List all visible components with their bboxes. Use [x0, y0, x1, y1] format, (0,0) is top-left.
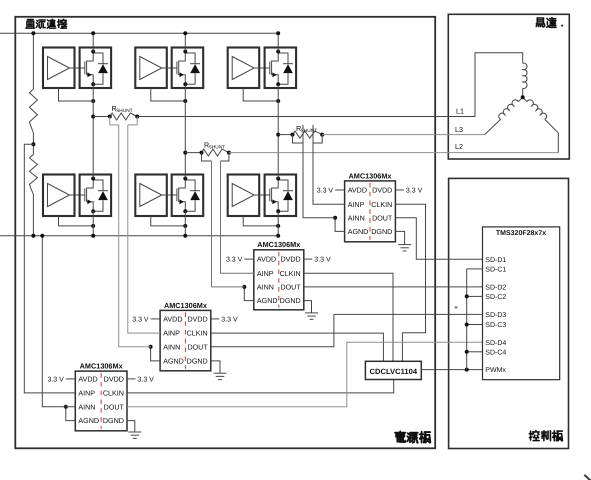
svg-text:CLKIN: CLKIN — [280, 270, 301, 278]
svg-text:DOUT: DOUT — [372, 214, 393, 222]
wire: U3 AGND to AINN — [244, 287, 254, 301]
svg-text:DVDD: DVDD — [372, 187, 392, 195]
junction: SD-C4 — [465, 350, 469, 354]
control board box — [449, 178, 569, 448]
wire: phase leg 2 midpoint — [184, 84, 186, 178]
svg-text:SD-D4: SD-D4 — [485, 340, 506, 347]
svg-text:SHUNT: SHUNT — [209, 145, 226, 151]
mark: corner artifact — [584, 475, 590, 480]
wire: leg 2 to shunt — [185, 152, 201, 154]
gate driver U2 buffer triangle — [140, 57, 162, 80]
ground (U2 DGND) — [398, 245, 411, 251]
IGBT Q5 symbol — [179, 179, 186, 189]
gate driver U5 buffer triangle — [140, 184, 162, 207]
svg-text:DOUT: DOUT — [280, 284, 301, 292]
isolated modulator U5 (AMC1306Mx) — [75, 362, 127, 431]
svg-text:CLKIN: CLKIN — [187, 330, 208, 338]
resistor R1 (DC bus divider upper) — [29, 89, 37, 133]
gate driver U2 box — [135, 48, 167, 89]
wire: U2 DVDD supply stub — [395, 189, 404, 191]
wire: DC- bus rail — [0, 235, 278, 237]
diode D5 (freewheel) — [185, 180, 195, 191]
svg-text:AGND: AGND — [257, 297, 278, 305]
wire: U3 AVDD supply stub — [244, 258, 254, 260]
node: Q6 emitter — [276, 209, 280, 213]
svg-text:DGND: DGND — [371, 228, 392, 236]
node: Q2 collector — [183, 50, 187, 54]
wire: driver U2 output to IGBT gate — [162, 67, 177, 69]
svg-text:AVDD: AVDD — [348, 187, 367, 195]
wire: U3 CLKIN route — [304, 273, 393, 361]
node: Q3 emitter — [276, 82, 280, 86]
svg-text:3.3 V: 3.3 V — [317, 188, 334, 195]
wire: phase leg 3 midpoint — [277, 84, 279, 178]
wire: U4 DVDD supply stub — [211, 318, 220, 320]
wire: U4 AGND to AINN — [151, 347, 161, 361]
isolated modulator U4 (AMC1306Mx) — [160, 301, 211, 371]
svg-text:3.3 V: 3.3 V — [314, 257, 331, 264]
node: Q6 collector — [276, 177, 280, 181]
ground (U4 DGND) — [214, 373, 227, 379]
gate driver U4 buffer triangle — [48, 184, 70, 207]
wire: DC- bus to U5 AINN — [42, 236, 75, 407]
junction: driver U3 return on phase leg — [276, 99, 280, 103]
svg-text:AMC1306Mx: AMC1306Mx — [164, 301, 207, 310]
wire: SD-C3 stub — [467, 324, 483, 326]
IGBT Q3 box — [265, 48, 297, 89]
svg-text:CLKIN: CLKIN — [371, 201, 392, 209]
wire: driver U4 output to IGBT gate — [70, 194, 85, 196]
node: Q5 emitter — [183, 209, 187, 213]
wire: U5 DOUT to SD-D4 — [127, 342, 483, 407]
svg-text:SHUNT: SHUNT — [116, 108, 133, 114]
IGBT Q1 symbol — [87, 52, 94, 62]
wire: U3 DGND to ground — [304, 301, 312, 313]
wire: U2 AGND to AINN — [335, 218, 345, 232]
svg-text:3.3 V: 3.3 V — [47, 376, 64, 383]
wire: driver U5 output to IGBT gate — [162, 194, 177, 196]
wire: shunt1 right sense to U4 AINP — [128, 125, 160, 333]
ground (U3 DGND) — [305, 313, 318, 319]
svg-text:PWMx: PWMx — [485, 367, 506, 374]
junction: leg 2 shunt tap — [183, 151, 187, 155]
node: R_SHUNT1 right terminal — [135, 115, 139, 119]
wire: R_SHUNT2 left kelvin tap — [202, 153, 212, 161]
junction: divider on DC- bus — [31, 234, 35, 238]
power board box — [15, 17, 435, 449]
svg-text:3.3 V: 3.3 V — [138, 376, 155, 383]
wire: R_SHUNT3 right kelvin tap — [313, 135, 322, 143]
wire: U2 DOUT to SD-D1 — [395, 218, 482, 260]
wire: DC+ bus rail — [0, 32, 278, 34]
junction: driver U1 return on phase leg — [91, 99, 95, 103]
svg-text:AINN: AINN — [163, 343, 180, 351]
svg-text:AVDD: AVDD — [163, 316, 182, 324]
wire: L3 phase line (shunt3 to motor) — [322, 134, 484, 136]
IGBT Q6 box — [265, 175, 297, 217]
node: Q4 collector — [91, 177, 95, 181]
wire: SDFM clock bus vertical — [466, 269, 468, 370]
junction: U5 AINN node — [64, 405, 68, 409]
wire: phase leg 1 lower — [92, 211, 94, 236]
junction: SD-C2 — [465, 294, 469, 298]
mark: small plus artifact — [455, 306, 458, 309]
wire: divider tap to U5 AINP — [24, 144, 75, 393]
label: power board — [395, 432, 430, 443]
junction: driver U6 return on phase leg — [276, 224, 280, 228]
IGBT Q4 symbol — [87, 179, 94, 189]
junction: SD-C3 — [465, 323, 469, 327]
svg-text:DVDD: DVDD — [187, 316, 207, 324]
IGBT Q5 box — [172, 175, 204, 217]
wire: shunt1 left sense to U4 AINN — [119, 125, 151, 347]
resistor R2 (DC bus divider lower) — [29, 155, 37, 195]
wire: driver U3 output to IGBT gate — [254, 67, 270, 69]
svg-text:L2: L2 — [455, 142, 463, 151]
gate driver U6 box — [228, 175, 260, 217]
gate driver U3 box — [228, 48, 260, 89]
wire: shunt3 left sense to U2 AINN — [303, 125, 335, 218]
diode D3 (freewheel) — [278, 53, 288, 64]
wire: driver U5 return — [151, 216, 186, 226]
resistor R_SHUNT1 — [110, 113, 137, 120]
svg-text:AINN: AINN — [348, 214, 365, 222]
svg-text:L3: L3 — [455, 125, 463, 134]
svg-text:3.3 V: 3.3 V — [221, 316, 238, 323]
wire: driver U6 output to IGBT gate — [254, 194, 270, 196]
junction: leg 1 on DC- bus — [91, 234, 95, 238]
wire: driver U3 return — [243, 88, 278, 101]
junction: divider on DC+ bus — [31, 31, 35, 35]
svg-text:3.3 V: 3.3 V — [406, 188, 423, 195]
wire: R_SHUNT1 left kelvin tap — [110, 117, 119, 125]
svg-text:3.3 V: 3.3 V — [132, 316, 149, 323]
junction: leg 3 on DC+ bus — [276, 31, 280, 35]
node: R_SHUNT2 right terminal — [227, 151, 231, 155]
wire: phase leg 1 midpoint — [92, 84, 94, 178]
junction: U5 AINN branch on DC- bus — [40, 234, 44, 238]
junction: leg 2 on DC- bus — [183, 234, 187, 238]
junction: PWMx to U6 input — [465, 368, 469, 372]
diode D2 (freewheel) — [185, 53, 195, 64]
svg-text:SD-D3: SD-D3 — [485, 312, 506, 319]
wire: divider bottom — [32, 195, 34, 236]
junction: U2 AINN node — [333, 216, 337, 220]
node: Q4 emitter — [91, 209, 95, 213]
junction: U3 AINN node — [242, 285, 246, 289]
gate driver U4 box — [43, 175, 75, 217]
wire: driver U2 return — [151, 88, 186, 101]
junction: leg 3 on DC- bus — [276, 234, 280, 238]
svg-text:DVDD: DVDD — [104, 376, 124, 384]
svg-text:AMC1306Mx: AMC1306Mx — [257, 240, 300, 249]
wire: U5 DGND to ground — [127, 421, 135, 432]
wire: driver U4 return — [59, 216, 94, 226]
wire: U4 DOUT to SD-D3 — [211, 314, 483, 346]
wire: driver U1 return — [59, 88, 94, 101]
node: Q1 collector — [91, 50, 95, 54]
svg-text:AVDD: AVDD — [257, 256, 276, 264]
svg-text:SD-D2: SD-D2 — [485, 285, 506, 292]
gate driver U5 box — [135, 175, 167, 217]
isolated modulator U3 (AMC1306Mx) — [254, 240, 304, 310]
wire: U5 AVDD supply stub — [66, 378, 76, 380]
svg-text:AVDD: AVDD — [78, 376, 97, 384]
microcontroller U7 (TMS320F28x7x) — [483, 227, 560, 380]
svg-text:DOUT: DOUT — [104, 403, 125, 411]
wire: shunt2 right sense to U3 AINP — [221, 161, 254, 273]
wire: U5 DVDD supply stub — [127, 378, 136, 380]
wire: leg 1 to shunt — [93, 116, 110, 118]
svg-text:CLKIN: CLKIN — [103, 390, 124, 398]
wire: U4 CLKIN route — [211, 333, 384, 361]
junction: leg 1 shunt tap — [91, 115, 95, 119]
wire: R_SHUNT1 right kelvin tap — [128, 117, 137, 125]
node: R_SHUNT1 left terminal — [108, 115, 112, 119]
svg-text:SD-C2: SD-C2 — [485, 294, 506, 301]
junction: leg 3 shunt tap — [276, 133, 280, 137]
wire: U2 DGND to ground — [395, 231, 404, 244]
IGBT Q2 box — [172, 48, 204, 89]
svg-text:DGND: DGND — [280, 297, 301, 305]
node: Q3 collector — [276, 50, 280, 54]
node: Q1 emitter — [91, 82, 95, 86]
svg-text:3.3 V: 3.3 V — [226, 257, 243, 264]
wire: L2 phase line (shunt2 to motor) — [229, 152, 558, 154]
svg-text:DOUT: DOUT — [187, 343, 208, 351]
junction: driver U5 return on phase leg — [183, 224, 187, 228]
IGBT Q3 symbol — [272, 52, 279, 62]
wire: driver U6 return — [243, 216, 278, 226]
gate driver U1 buffer triangle — [48, 57, 70, 80]
wire: SD-C2 stub — [467, 295, 483, 297]
gate driver U6 buffer triangle — [232, 184, 254, 207]
wire: R_SHUNT3 left kelvin tap — [293, 135, 304, 143]
node: R_SHUNT2 left terminal — [200, 151, 204, 155]
svg-text:DGND: DGND — [103, 417, 124, 425]
wire: U4 DGND to ground — [211, 361, 220, 373]
svg-text:AINP: AINP — [348, 201, 365, 209]
svg-text:AINP: AINP — [257, 270, 274, 278]
label: control board — [529, 431, 562, 441]
wire: driver U1 output to IGBT gate — [70, 67, 85, 69]
diode D4 (freewheel) — [93, 180, 103, 191]
svg-text:AINP: AINP — [78, 390, 95, 398]
junction: driver U2 return on phase leg — [183, 99, 187, 103]
svg-text:TMS320F28x7x: TMS320F28x7x — [496, 230, 546, 237]
svg-text:SD-D1: SD-D1 — [485, 257, 506, 264]
label: motor — [536, 18, 556, 28]
wire: U3 DOUT to SD-D2 — [304, 286, 483, 288]
inductor: motor winding L3 (left diagonal coil) — [518, 97, 522, 101]
node: R_SHUNT3 right terminal — [320, 133, 324, 137]
svg-text:DVDD: DVDD — [280, 256, 300, 264]
inductor: motor winding L1 (vertical coil) — [522, 53, 524, 64]
svg-text:CDCLVC1104: CDCLVC1104 — [370, 367, 418, 376]
svg-text:AMC1306Mx: AMC1306Mx — [80, 362, 123, 371]
IGBT Q6 symbol — [272, 179, 279, 189]
wire: SD-C4 stub — [467, 351, 483, 353]
wire: phase leg 1 upper — [92, 33, 94, 51]
diode D6 (freewheel) — [278, 180, 288, 191]
wire: U6 clock input from PWMx — [421, 369, 482, 371]
gate driver U1 box — [43, 48, 75, 89]
node: motor star point — [521, 95, 525, 99]
svg-text:AINN: AINN — [78, 403, 95, 411]
ground (U5 DGND) — [128, 432, 141, 438]
svg-text:AMC1306Mx: AMC1306Mx — [349, 171, 392, 180]
svg-text:AGND: AGND — [348, 228, 369, 236]
IGBT Q2 symbol — [179, 52, 186, 62]
node: R_SHUNT3 left terminal — [291, 133, 295, 137]
junction: U4 AINN node — [149, 345, 153, 349]
svg-text:L1: L1 — [456, 107, 464, 116]
junction: leg 1 on DC+ bus — [91, 31, 95, 35]
svg-text:SD-C3: SD-C3 — [485, 322, 506, 329]
junction: leg 2 on DC+ bus — [183, 31, 187, 35]
node: divider tap — [31, 142, 35, 146]
wire: shunt3 right sense to U2 AINP — [313, 125, 345, 204]
svg-text:AGND: AGND — [163, 358, 184, 366]
svg-text:SD-C1: SD-C1 — [485, 267, 506, 274]
junction: driver U4 return on phase leg — [91, 224, 95, 228]
wire: L1 phase line (shunt1 to motor) — [137, 53, 523, 117]
svg-text:AINP: AINP — [163, 330, 180, 338]
wire: leg 3 to shunt — [278, 134, 292, 136]
wire: divider middle — [32, 133, 34, 155]
wire: phase leg 3 lower — [277, 211, 279, 236]
diode D1 (freewheel) — [93, 53, 103, 64]
resistor R_SHUNT2 — [202, 149, 229, 156]
wire: U2 CLKIN route — [395, 204, 425, 361]
motor box — [448, 14, 569, 159]
svg-text:SD-C4: SD-C4 — [485, 349, 506, 356]
IGBT Q4 box — [80, 175, 112, 217]
wire: U4 AVDD supply stub — [151, 318, 161, 320]
wire: U5 CLKIN route — [127, 380, 394, 393]
wire: U5 AGND to AINN — [66, 407, 76, 421]
node: Q2 emitter — [183, 82, 187, 86]
wire: phase leg 2 upper — [184, 33, 186, 51]
isolated modulator U2 (AMC1306Mx) — [345, 171, 396, 241]
wire: U2 AVDD supply stub — [335, 189, 345, 191]
wire: U3 DVDD supply stub — [304, 258, 313, 260]
wire: phase leg 3 upper — [277, 33, 279, 51]
gate driver U3 buffer triangle — [232, 57, 254, 80]
svg-text:AGND: AGND — [78, 417, 99, 425]
node: Q5 collector — [183, 177, 187, 181]
wire: phase leg 2 lower — [184, 211, 186, 236]
wire: shunt2 left sense to U3 AINN — [212, 161, 245, 287]
clock buffer U6 (CDCLVC1104) — [365, 361, 421, 379]
wire: SD-C1 stub — [467, 268, 483, 270]
label: DC link (direct current link) — [26, 19, 66, 28]
wire: R_SHUNT2 right kelvin tap — [221, 153, 229, 161]
wire: divider top — [32, 33, 34, 89]
resistor R_SHUNT3 — [293, 131, 323, 138]
svg-text:AINN: AINN — [257, 284, 274, 292]
svg-text:DGND: DGND — [187, 358, 208, 366]
inductor: motor winding L2 (right diagonal coil) — [523, 97, 527, 101]
IGBT Q1 box — [80, 48, 112, 89]
